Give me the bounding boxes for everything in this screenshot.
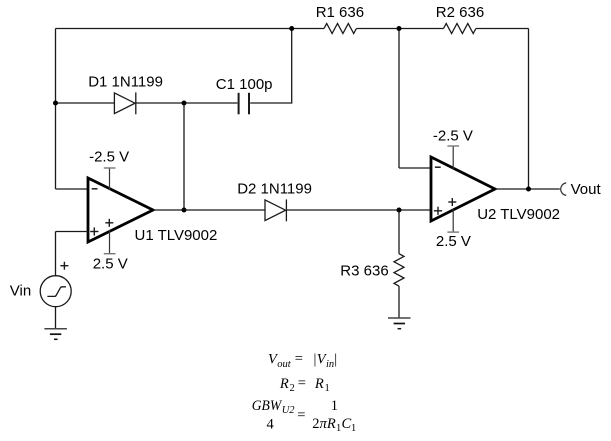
op-amp U2 minus sign bbox=[435, 166, 441, 168]
source Vin plus sign bbox=[60, 262, 68, 270]
svg-text:2: 2 bbox=[312, 416, 319, 432]
op-amp U2 bbox=[431, 157, 495, 221]
wire Vin to ground bbox=[55, 307, 57, 329]
svg-text:U2 TLV9002: U2 TLV9002 bbox=[477, 206, 560, 223]
diode D2 bbox=[265, 199, 286, 221]
svg-text:4: 4 bbox=[267, 416, 275, 432]
node junction D1 C1 bbox=[182, 101, 187, 106]
port Vout arc bbox=[561, 183, 567, 196]
equation 1: Vout = |Vin| bbox=[268, 351, 337, 370]
wire U2 output to Vout port bbox=[495, 188, 560, 190]
wire U2 inverting input stub bbox=[399, 167, 431, 169]
equation 3: GBW_U2 / 4 = 1 / (2 pi R1 C1) bbox=[252, 398, 357, 434]
diode D1 bbox=[114, 92, 135, 114]
source Vin circle bbox=[40, 276, 71, 307]
wire C1 right plate to corner up to top rail bbox=[250, 29, 292, 104]
op-amp U2 plus sign (input) bbox=[434, 207, 442, 215]
svg-text:out: out bbox=[277, 359, 292, 370]
resistor R3 bbox=[394, 254, 404, 286]
wire node R1R2 down to U2 inverting input bbox=[398, 29, 400, 169]
ground below R3 bbox=[388, 318, 411, 329]
svg-text:1: 1 bbox=[325, 383, 330, 394]
wire D2 cathode to R3 node to U2 plus input bbox=[286, 209, 431, 211]
node junction top rail / C1 branch bbox=[289, 26, 294, 31]
wire R1 to node between R1 R2 bbox=[356, 28, 399, 30]
svg-text:1: 1 bbox=[336, 423, 341, 434]
svg-text:πR: πR bbox=[320, 416, 336, 432]
op-amp U1 plus sign (supply) bbox=[105, 219, 113, 227]
op-amp U1 bbox=[88, 178, 153, 242]
wire U1 inverting input stub bbox=[56, 188, 89, 190]
svg-text:D1 1N1199: D1 1N1199 bbox=[88, 73, 163, 90]
svg-text:R: R bbox=[314, 376, 324, 392]
svg-text:GBW: GBW bbox=[252, 398, 283, 414]
svg-text:1: 1 bbox=[331, 398, 338, 414]
op-amp U1 bottom supply pin bbox=[109, 231, 111, 254]
wire right vertical down to U2 output bbox=[528, 29, 530, 190]
op-amp U2 plus sign (supply) bbox=[448, 198, 456, 206]
svg-text:2.5 V: 2.5 V bbox=[436, 233, 471, 250]
op-amp U1 top supply bar bbox=[104, 167, 116, 169]
svg-text:-2.5 V: -2.5 V bbox=[89, 148, 129, 165]
svg-text:U2: U2 bbox=[282, 405, 296, 416]
op-amp U1 plus sign (input) bbox=[90, 227, 98, 235]
op-amp U1 top supply pin bbox=[109, 168, 111, 190]
svg-text:R: R bbox=[279, 376, 289, 392]
svg-text:Vin: Vin bbox=[10, 282, 31, 299]
svg-text:C: C bbox=[342, 416, 352, 432]
svg-text:R2 636: R2 636 bbox=[436, 4, 484, 21]
svg-text:-2.5 V: -2.5 V bbox=[433, 127, 473, 144]
equation 2: R2 = R1 bbox=[279, 375, 330, 394]
wire R3 node down to R3 bbox=[398, 210, 400, 254]
svg-text:R3 636: R3 636 bbox=[340, 263, 388, 280]
wire node to R2 bbox=[399, 28, 444, 30]
svg-text:U1 TLV9002: U1 TLV9002 bbox=[135, 227, 218, 244]
svg-text:D2 1N1199: D2 1N1199 bbox=[237, 180, 312, 197]
node junction R3 top bbox=[397, 208, 402, 213]
wire R2 to right corner bbox=[476, 28, 529, 30]
op-amp U2 top supply pin bbox=[452, 146, 454, 169]
svg-text:C1 100p: C1 100p bbox=[216, 76, 273, 93]
node junction between R1 and R2 bbox=[397, 26, 402, 31]
svg-text:=: = bbox=[297, 407, 305, 423]
op-amp U1 minus sign bbox=[92, 188, 98, 190]
wire top feedback rail bbox=[56, 28, 292, 30]
svg-text:|: | bbox=[334, 351, 337, 367]
source Vin waveform symbol bbox=[47, 287, 66, 297]
op-amp U2 top supply bar bbox=[447, 145, 459, 147]
svg-text:1: 1 bbox=[351, 423, 356, 434]
resistor R2 bbox=[444, 24, 476, 34]
op-amp U1 bottom supply bar bbox=[104, 253, 116, 255]
wire U1 plus input stub bbox=[56, 231, 89, 233]
wire R3 to ground bbox=[398, 286, 400, 318]
svg-text:2: 2 bbox=[290, 383, 295, 394]
wire U1 output to D2 anode bbox=[153, 209, 265, 211]
resistor R1 bbox=[324, 24, 356, 34]
svg-text:=: = bbox=[298, 375, 306, 391]
svg-text:Vout: Vout bbox=[571, 181, 602, 198]
wire left vertical from top rail to U1 inverting input bbox=[55, 29, 57, 190]
op-amp U2 bottom supply pin bbox=[452, 210, 454, 233]
wire node to C1 left plate bbox=[184, 102, 237, 104]
svg-text:2.5 V: 2.5 V bbox=[93, 256, 128, 273]
ground below Vin bbox=[44, 329, 67, 340]
svg-text:=: = bbox=[295, 351, 303, 367]
capacitor C1 bbox=[239, 93, 249, 115]
node junction left rail / D1 bbox=[53, 101, 58, 106]
wire down to Vin source bbox=[55, 232, 57, 277]
wire node above down to U1 output wire bbox=[183, 103, 185, 210]
wire D1 cathode to node bbox=[136, 102, 184, 104]
svg-text:in: in bbox=[326, 359, 334, 370]
svg-text:R1 636: R1 636 bbox=[316, 4, 364, 21]
wire left node to D1 anode bbox=[56, 102, 115, 104]
op-amp U2 bottom supply bar bbox=[447, 231, 459, 233]
wire top rail to R1 bbox=[292, 28, 324, 30]
node junction U2 output / feedback bbox=[526, 187, 531, 192]
node junction U1 output bbox=[182, 208, 187, 213]
